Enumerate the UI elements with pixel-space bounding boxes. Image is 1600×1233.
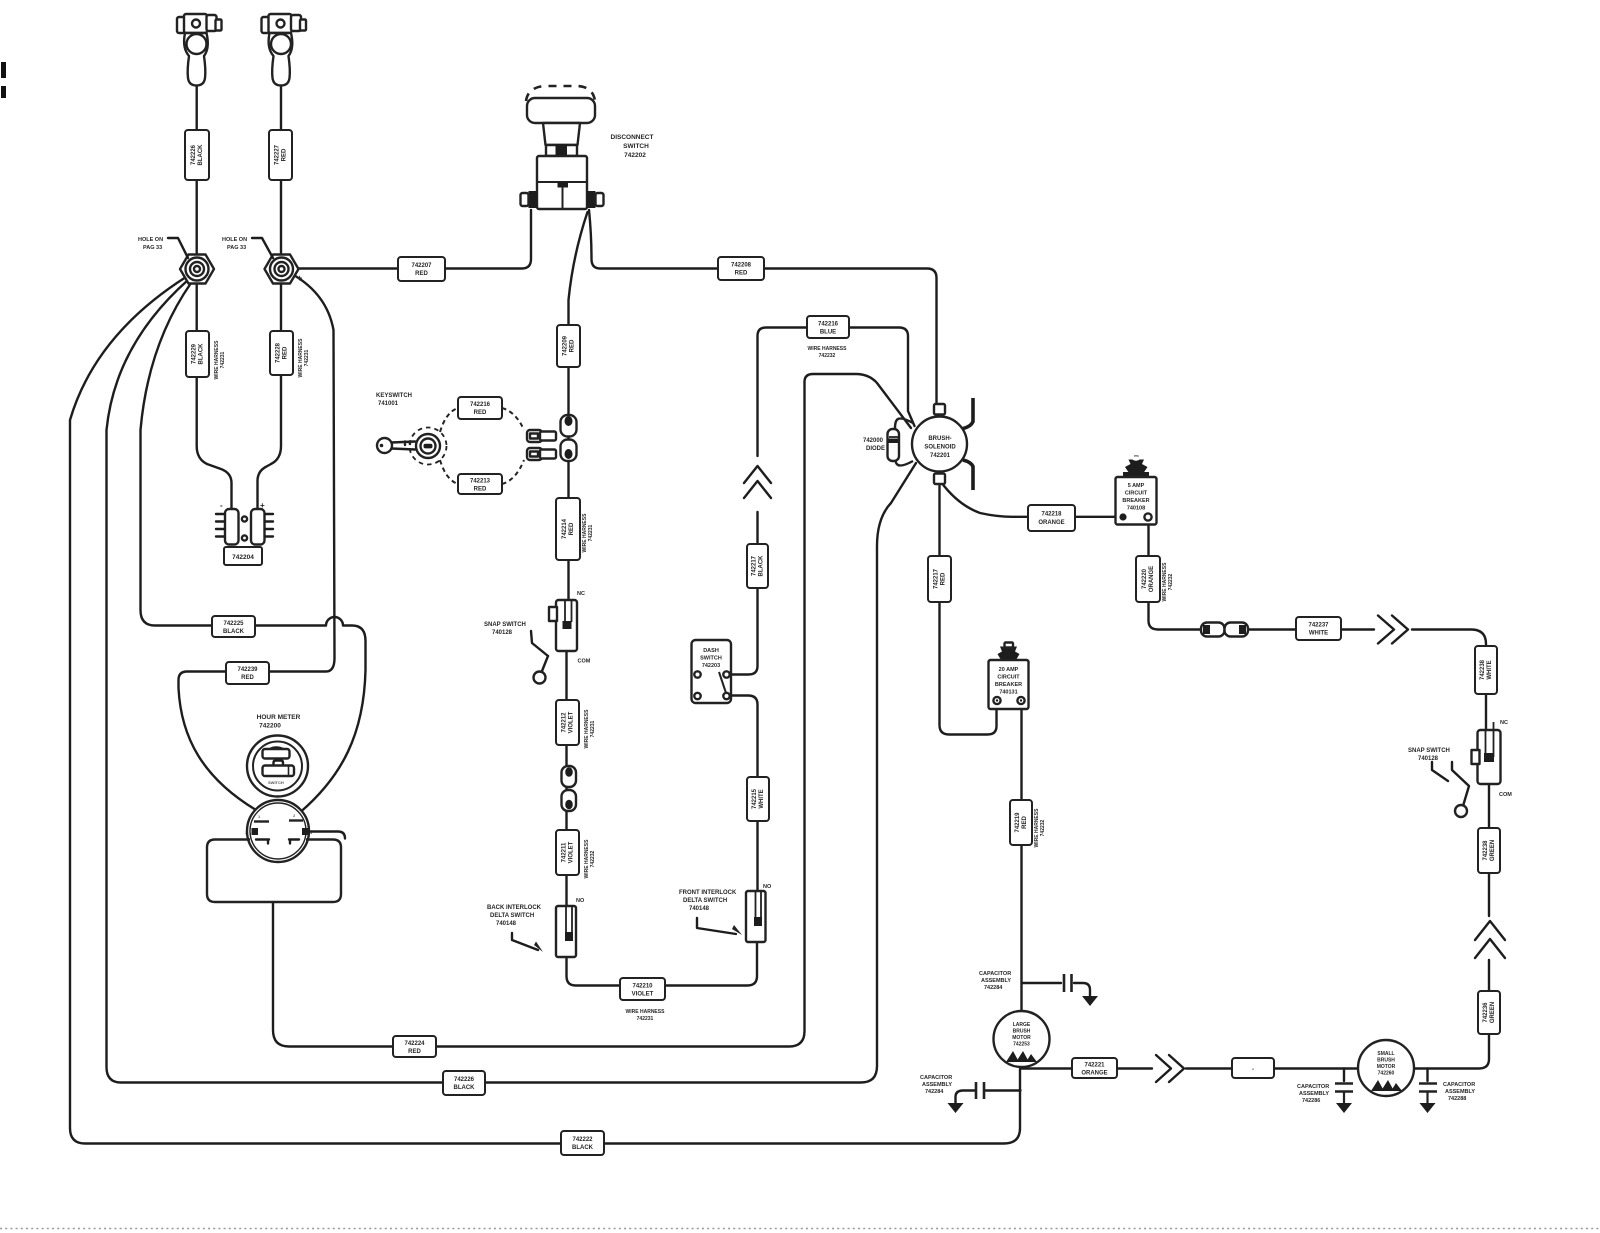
svg-text:742225: 742225 <box>223 621 244 627</box>
svg-text:742204: 742204 <box>232 554 254 561</box>
battery clamp 1 (negative cable) <box>177 14 222 86</box>
label 742238 white <box>1475 646 1497 694</box>
inline bullet connectors on central violet wire <box>562 766 577 811</box>
label 742229 black with wire harness 742231 note <box>186 331 226 379</box>
svg-text:742220: 742220 <box>1142 568 1148 589</box>
svg-text:740128: 740128 <box>1418 756 1439 762</box>
wire 742218 orange: solenoid bottom to 5 amp breaker left terminal <box>941 482 1119 517</box>
svg-text:SMALL: SMALL <box>1377 1051 1394 1057</box>
svg-text:BLACK: BLACK <box>572 1145 594 1151</box>
svg-text:WHITE: WHITE <box>1309 631 1328 637</box>
svg-text:RED: RED <box>570 339 576 352</box>
label 742228 red with wire harness 742231 note <box>270 331 310 377</box>
svg-text:742213: 742213 <box>470 479 491 485</box>
svg-text:WHITE: WHITE <box>1487 660 1493 679</box>
svg-text:ASSEMBLY: ASSEMBLY <box>1299 1091 1329 1097</box>
label 742209 red <box>557 325 580 367</box>
svg-text:RED: RED <box>569 522 575 535</box>
dash switch 742203 <box>692 640 732 703</box>
dash switch text <box>700 648 722 669</box>
svg-text:DELTA SWITCH: DELTA SWITCH <box>490 913 534 919</box>
callout disconnect switch 742202 <box>611 134 654 159</box>
wire 742224 red: hour meter housing down, bottom run, up right side to solenoid left diagonal <box>273 374 911 1047</box>
svg-text:742284: 742284 <box>984 985 1003 991</box>
svg-text:NO: NO <box>763 884 772 890</box>
svg-text:-: - <box>220 501 223 510</box>
keyswitch 741001 <box>377 408 524 484</box>
capacitor assembly 742288 (plates and ground) <box>1419 1084 1437 1114</box>
svg-text:742216: 742216 <box>470 402 491 408</box>
label 742220 orange with wire harness 742232 note <box>1136 556 1174 602</box>
svg-text:742219: 742219 <box>1015 812 1021 833</box>
capacitor assembly 742284 top (plates and ground) <box>1064 974 1098 1006</box>
svg-text:DELTA SWITCH: DELTA SWITCH <box>683 898 727 904</box>
svg-text:RED: RED <box>1022 816 1028 829</box>
snap switch 740128 right <box>1452 722 1501 817</box>
callout hole on pag 33 (negative stud) <box>138 237 188 258</box>
svg-text:742231: 742231 <box>220 351 226 368</box>
svg-text:740128: 740128 <box>492 630 513 636</box>
svg-text:MOTOR: MOTOR <box>1377 1064 1396 1070</box>
svg-text:ORANGE: ORANGE <box>1038 520 1064 526</box>
svg-text:742226: 742226 <box>191 144 197 165</box>
svg-text:SOLENOID: SOLENOID <box>924 445 956 451</box>
wire white after splice chevron to right corner down to snap switch <box>1412 630 1486 735</box>
svg-text:CIRCUIT: CIRCUIT <box>1125 491 1148 497</box>
svg-text:742253: 742253 <box>1013 1042 1030 1048</box>
svg-text:BLUE: BLUE <box>820 330 836 336</box>
svg-text:HOLE ON: HOLE ON <box>138 237 163 243</box>
label 742226 black (clamp 1 cable) <box>185 130 209 180</box>
brush solenoid text <box>924 436 956 459</box>
svg-text:742212: 742212 <box>562 712 568 733</box>
wire capacitor assembly 742284 tap at motor top <box>1022 983 1091 996</box>
svg-text:742238: 742238 <box>1483 840 1489 861</box>
wire capacitor assembly 742284 tap at motor bottom <box>956 1091 1021 1104</box>
label 742225 black <box>212 616 255 637</box>
wire 742226 black: negative stud fan curve, middle loop, bottom run up to solenoid lower-left <box>107 280 917 1083</box>
svg-text:MOTOR: MOTOR <box>1012 1035 1031 1041</box>
splice chevron right on motor chain wire <box>1156 1055 1184 1082</box>
wire 742219 red: 20 amp breaker right terminal down to large brush motor top <box>1020 705 1022 1012</box>
svg-text:742227: 742227 <box>275 144 281 165</box>
5 amp circuit breaker 740108 <box>1116 456 1157 525</box>
svg-text:RED: RED <box>282 148 288 161</box>
svg-text:RED: RED <box>241 675 254 681</box>
svg-text:BRUSH: BRUSH <box>1013 1029 1031 1035</box>
svg-text:CIRCUIT: CIRCUIT <box>997 675 1020 681</box>
label 742210 violet with wire harness 742231 note <box>620 978 665 1022</box>
wire capacitor assembly 742286 tap left of small motor <box>1343 1069 1345 1082</box>
callout back interlock delta switch 740148 <box>487 905 542 927</box>
wire 742212 violet: snap switch com down through interlock chain to front interlock <box>567 651 758 986</box>
wire green below chevron to small brush motor <box>1415 960 1489 1069</box>
page edge marks <box>1 62 6 78</box>
wire negative stud down through label 742229 to connector 742204 minus pin <box>197 285 232 509</box>
wire battery clamp 2 to label 742227 and positive stud <box>280 86 282 253</box>
inline bullet connectors on central red wire <box>561 415 577 461</box>
svg-text:RED: RED <box>474 410 487 416</box>
battery clamp 2 (positive cable) <box>262 14 307 86</box>
polarity marks at connector 742204 <box>220 501 265 510</box>
label 742214 red with wire harness 742231 note <box>556 498 594 560</box>
svg-text:VIOLET: VIOLET <box>569 711 575 733</box>
disconnect switch 742202 <box>521 86 604 209</box>
svg-text:742207: 742207 <box>411 263 432 269</box>
com and nc marks right snap switch <box>1499 720 1512 798</box>
20 amp circuit breaker 740131 <box>989 642 1029 709</box>
svg-text:GREEN: GREEN <box>1490 840 1496 861</box>
wire 742239 red: positive stud diagonal, mid vertical, to hour meter connector left <box>179 274 335 810</box>
svg-text:CAPACITOR: CAPACITOR <box>979 971 1011 977</box>
back interlock delta switch 740148 <box>512 906 576 957</box>
battery connector 742204 <box>216 509 273 545</box>
wire positive stud down through label 742228 to connector 742204 plus pin <box>258 285 282 509</box>
svg-text:742229: 742229 <box>192 343 198 364</box>
svg-text:742232: 742232 <box>1040 819 1046 836</box>
label 742238 green <box>1478 828 1500 873</box>
splice chevron up on dash circuit wire <box>744 466 771 498</box>
svg-text:742218: 742218 <box>1041 512 1062 518</box>
svg-text:742231: 742231 <box>637 1016 654 1022</box>
wire 742215 white: dash switch lower contact down to front interlock top <box>732 696 758 892</box>
label 742239 red <box>226 662 269 684</box>
svg-text:BLACK: BLACK <box>198 144 204 166</box>
label 742230 blue on dash circuit <box>747 544 768 588</box>
svg-text:742260: 742260 <box>1378 1071 1395 1077</box>
svg-text:CAPACITOR: CAPACITOR <box>920 1075 952 1081</box>
svg-text:742237: 742237 <box>1308 623 1329 629</box>
label 742224 red (bottom wire A) <box>393 1036 436 1057</box>
hour meter 742200 <box>247 736 308 797</box>
svg-text:SNAP SWITCH: SNAP SWITCH <box>1408 748 1450 754</box>
hour meter 4-pin connector <box>245 800 313 862</box>
5 amp breaker text <box>1122 483 1149 512</box>
label 742226 black (bottom wire B) <box>443 1071 485 1095</box>
svg-text:DISCONNECT: DISCONNECT <box>611 134 654 141</box>
svg-text:SWITCH: SWITCH <box>700 656 722 662</box>
svg-text:HOLE ON: HOLE ON <box>222 237 247 243</box>
splice chevron right on white wire <box>1378 616 1408 644</box>
label 742218 orange <box>1028 505 1075 531</box>
svg-text:PAG 33: PAG 33 <box>143 245 162 251</box>
svg-text:WIRE HARNESS: WIRE HARNESS <box>808 346 848 352</box>
svg-text:740148: 740148 <box>496 921 517 927</box>
svg-text:NC: NC <box>1500 720 1508 726</box>
callout front interlock delta switch 740148 <box>679 890 737 912</box>
svg-text:ASSEMBLY: ASSEMBLY <box>922 1082 952 1088</box>
wire 742209 red: disconnect switch to central run with connectors and snap switch <box>569 212 588 600</box>
svg-text:NC: NC <box>577 591 585 597</box>
label 742208 red <box>718 257 764 280</box>
large brush motor 742253 <box>994 1011 1050 1067</box>
bottom dotted page divider <box>0 1228 1600 1230</box>
svg-text:VIOLET: VIOLET <box>632 992 654 998</box>
svg-text:SWITCH: SWITCH <box>623 143 649 150</box>
label 742216 blue with wire harness 742232 note <box>807 316 849 359</box>
capacitor assembly 742286 text <box>1297 1084 1329 1104</box>
label 742236 green lower <box>1478 991 1500 1034</box>
inline fuse connector on white wire <box>1201 623 1248 637</box>
svg-text:BLACK: BLACK <box>454 1085 476 1091</box>
svg-text:742232: 742232 <box>590 850 596 867</box>
callout hole on pag 33 (positive stud) <box>222 237 273 258</box>
com and nc marks left snap switch <box>577 591 591 665</box>
wire 742221 orange: large motor to small motor chain <box>1022 1067 1153 1069</box>
svg-text:742231: 742231 <box>590 720 596 737</box>
svg-text:+: + <box>260 501 265 510</box>
svg-text:CAPACITOR: CAPACITOR <box>1443 1082 1475 1088</box>
label 742217 red <box>928 556 951 602</box>
svg-text:BLACK: BLACK <box>199 343 205 365</box>
capacitor assembly 742284 top text <box>979 971 1011 991</box>
label 742207 red <box>398 257 445 281</box>
label 742221 orange (motor chain) <box>1072 1058 1117 1078</box>
svg-text:CAPACITOR: CAPACITOR <box>1297 1084 1329 1090</box>
svg-text:742222: 742222 <box>572 1137 593 1143</box>
svg-text:DASH: DASH <box>703 648 719 654</box>
svg-text:742210: 742210 <box>632 984 653 990</box>
callout keyswitch 741001 <box>376 393 412 407</box>
svg-text:742228: 742228 <box>276 342 282 363</box>
svg-text:742231: 742231 <box>304 349 310 366</box>
small brush motor text <box>1377 1051 1396 1077</box>
svg-text:742286: 742286 <box>1302 1098 1320 1104</box>
wire 742220 orange / 742237 white: 5 amp breaker down and right to snap switch NC <box>1149 521 1375 630</box>
svg-text:BLACK: BLACK <box>223 629 245 635</box>
wire 742222 black: negative stud fan curve, left outer loop, bottom run to large motor bottom <box>70 277 1020 1144</box>
svg-text:HOUR METER: HOUR METER <box>257 714 301 721</box>
wire battery clamp 1 to label 742226 and negative stud <box>195 86 197 253</box>
svg-text:WIRE HARNESS: WIRE HARNESS <box>626 1009 666 1015</box>
svg-text:5 AMP: 5 AMP <box>1128 483 1145 489</box>
svg-text:742226: 742226 <box>454 1077 475 1083</box>
svg-text:740108: 740108 <box>1127 506 1145 512</box>
svg-text:NO: NO <box>576 898 585 904</box>
svg-text:WHITE: WHITE <box>759 789 765 808</box>
label 742213 red (keyswitch lower) <box>458 474 502 494</box>
capacitor assembly 742288 text <box>1443 1082 1475 1102</box>
wire 742208 red: disconnect switch right terminal to brush solenoid top <box>589 210 937 404</box>
keyswitch spade connector lower <box>527 448 556 460</box>
wire 742216 blue: dash circuit vertical above chevron to solenoid left <box>758 328 915 457</box>
wire chain after chevron to small motor left <box>1186 1067 1358 1069</box>
wire capacitor assembly 742288 tap right of small motor <box>1426 1069 1428 1082</box>
svg-text:COM: COM <box>1499 792 1512 798</box>
svg-text:RED: RED <box>283 346 289 359</box>
svg-text:BLACK: BLACK <box>759 555 765 577</box>
svg-text:742231: 742231 <box>588 524 594 541</box>
svg-text:BACK INTERLOCK: BACK INTERLOCK <box>487 905 542 911</box>
splice chevron up on green wire <box>1475 921 1505 958</box>
label 742216 red (keyswitch upper) <box>458 397 502 419</box>
label 742211 violet with wire harness note <box>556 830 596 878</box>
svg-text:KEYSWITCH: KEYSWITCH <box>376 393 412 399</box>
snap switch 740128 left <box>531 600 577 684</box>
capacitor assembly 742284 bottom (plates and ground) <box>948 1082 985 1113</box>
svg-text:RED: RED <box>735 271 748 277</box>
small brush motor 742260 <box>1358 1040 1414 1096</box>
capacitor assembly 742284 bottom text <box>920 1075 952 1095</box>
svg-text:FRONT INTERLOCK: FRONT INTERLOCK <box>679 890 737 896</box>
svg-text:ASSEMBLY: ASSEMBLY <box>981 978 1011 984</box>
svg-text:742232: 742232 <box>819 353 836 359</box>
20 amp breaker text <box>995 667 1022 696</box>
positive battery stud (hex terminal) <box>265 255 299 284</box>
label 742222 black (bottom wire C) <box>561 1131 604 1155</box>
svg-text:742201: 742201 <box>930 453 951 459</box>
plain inline label on motor chain <box>1232 1058 1274 1078</box>
svg-text:20 AMP: 20 AMP <box>999 667 1019 673</box>
callout snap switch 740128 left <box>484 622 526 636</box>
label 742204 (battery connector) <box>224 547 262 565</box>
label 742212 violet with wire harness note <box>556 700 596 748</box>
capacitor assembly 742286 (plates and ground) <box>1335 1084 1353 1114</box>
svg-text:SWITCH: SWITCH <box>268 780 284 785</box>
svg-text:BRUSH: BRUSH <box>1377 1058 1395 1064</box>
svg-text:BRUSH-: BRUSH- <box>928 436 951 442</box>
svg-text:742202: 742202 <box>624 152 646 159</box>
keyswitch spade connector upper <box>527 430 556 442</box>
svg-text:GREEN: GREEN <box>1490 1002 1496 1023</box>
svg-text:742288: 742288 <box>1448 1096 1466 1102</box>
svg-text:RED: RED <box>415 271 428 277</box>
callout snap switch 740128 right <box>1408 748 1450 781</box>
svg-text:740131: 740131 <box>999 690 1017 696</box>
svg-text:BREAKER: BREAKER <box>995 682 1022 688</box>
svg-text:742217: 742217 <box>752 555 758 576</box>
svg-text:ORANGE: ORANGE <box>1149 566 1155 592</box>
large brush motor text <box>1012 1022 1031 1048</box>
hour meter housing box <box>207 832 345 903</box>
wire 742225 black: negative stud fan curve, inner loop, through hop to hour meter connector right <box>141 283 366 812</box>
wire 742238 green: right snap switch com down to small motor right <box>1488 784 1490 916</box>
svg-text:742000: 742000 <box>863 438 884 444</box>
svg-text:742216: 742216 <box>818 322 839 328</box>
brush solenoid 742201 <box>895 398 973 490</box>
svg-text:RED: RED <box>474 487 487 493</box>
svg-text:ASSEMBLY: ASSEMBLY <box>1445 1089 1475 1095</box>
wire 742217 red: solenoid bottom to 20 amp breaker left terminal <box>940 484 997 735</box>
svg-text:ORANGE: ORANGE <box>1081 1071 1107 1077</box>
wire to dash switch upper contact from blue wire corner <box>732 512 758 675</box>
wire 742207 red: positive stud to disconnect switch left terminal <box>293 210 531 269</box>
label 742227 red (clamp 2 cable) <box>269 130 292 180</box>
svg-text:DIODE: DIODE <box>866 446 885 452</box>
hour meter text <box>257 714 301 730</box>
svg-text:742209: 742209 <box>563 335 569 356</box>
diode 742000 text <box>863 438 885 452</box>
label 742215 white <box>747 777 769 821</box>
svg-text:742239: 742239 <box>237 667 258 673</box>
svg-text:742214: 742214 <box>562 518 568 539</box>
svg-text:742208: 742208 <box>731 263 752 269</box>
svg-text:VIOLET: VIOLET <box>569 841 575 863</box>
label 742219 red with wire harness 742232 note <box>1010 800 1046 847</box>
svg-text:RED: RED <box>408 1049 421 1055</box>
svg-text:742284: 742284 <box>925 1089 944 1095</box>
svg-text:+: + <box>297 273 302 283</box>
svg-text:742224: 742224 <box>404 1041 425 1047</box>
svg-text:742232: 742232 <box>1168 573 1174 590</box>
svg-text:742221: 742221 <box>1084 1063 1105 1069</box>
negative battery stud (hex terminal) <box>180 255 214 284</box>
svg-text:LARGE: LARGE <box>1013 1022 1031 1028</box>
svg-text:COM: COM <box>578 659 591 665</box>
svg-text:742238: 742238 <box>1480 659 1486 680</box>
svg-text:740148: 740148 <box>689 906 710 912</box>
svg-text:SNAP SWITCH: SNAP SWITCH <box>484 622 526 628</box>
label 742237 white <box>1296 617 1341 640</box>
svg-text:742217: 742217 <box>934 568 940 589</box>
diode 742000 on solenoid <box>888 429 900 461</box>
svg-text:742215: 742215 <box>752 788 758 809</box>
svg-text:-: - <box>1252 1067 1254 1073</box>
front interlock delta switch 740148 <box>697 891 766 942</box>
svg-text:BREAKER: BREAKER <box>1122 498 1149 504</box>
svg-text:RED: RED <box>941 572 947 585</box>
svg-text:742211: 742211 <box>562 842 568 862</box>
svg-text:742236: 742236 <box>1483 1002 1489 1023</box>
svg-text:742203: 742203 <box>702 663 720 669</box>
svg-text:741001: 741001 <box>378 401 399 407</box>
svg-text:PAG 33: PAG 33 <box>227 245 246 251</box>
svg-text:742200: 742200 <box>259 723 281 730</box>
